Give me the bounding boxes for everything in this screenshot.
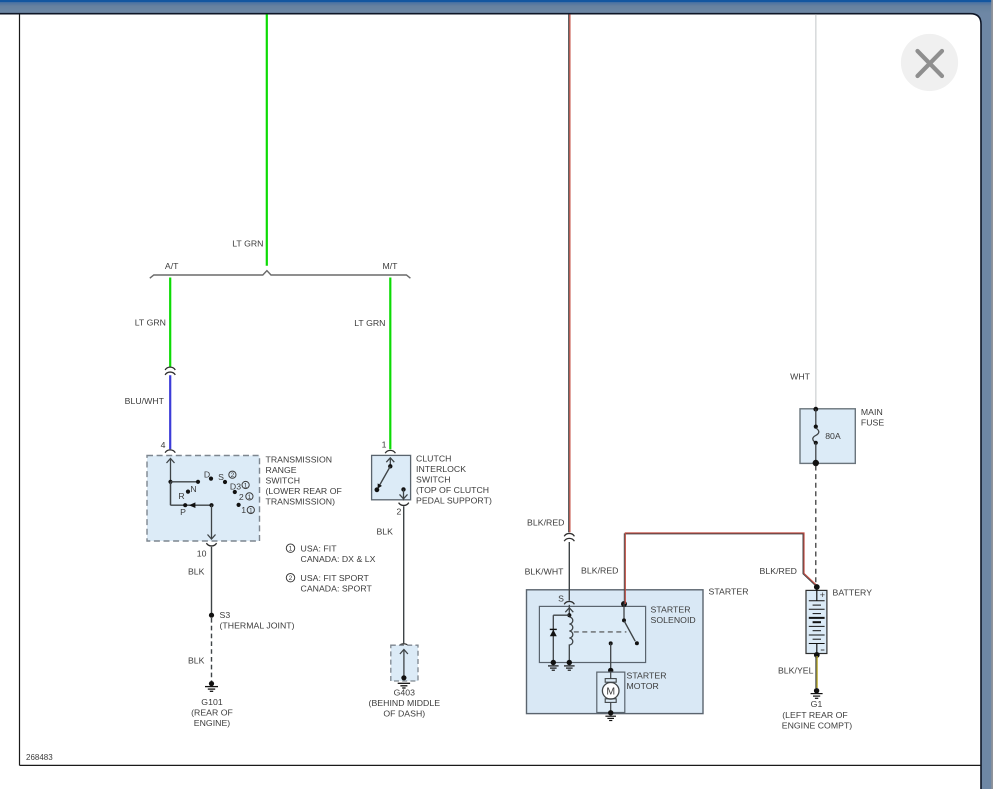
wire LT GRN M/T branch xyxy=(389,278,391,450)
fuse top terminal dot xyxy=(813,407,818,412)
motor ground xyxy=(608,710,613,715)
svg-text:2: 2 xyxy=(231,472,235,479)
svg-text:R: R xyxy=(178,491,184,501)
svg-text:2: 2 xyxy=(397,507,402,517)
wire BLK clutch to G403 xyxy=(403,506,405,643)
TRS junction dot xyxy=(168,480,172,484)
TRS bottom line with P contact and left arrow xyxy=(171,504,212,506)
contact S xyxy=(223,480,227,484)
connector arc at S xyxy=(564,601,574,604)
svg-text:SWITCH: SWITCH xyxy=(416,475,451,485)
footnote 1 xyxy=(286,544,294,552)
dashed wire fuse to battery xyxy=(815,466,817,584)
svg-text:M/T: M/T xyxy=(382,261,398,271)
battery internal stub top xyxy=(816,587,818,601)
top bar bright blue line xyxy=(0,0,993,2)
close button X xyxy=(918,51,943,76)
ground dot diode branch xyxy=(551,660,556,665)
wire WHT from top xyxy=(815,14,817,408)
svg-text:SWITCH: SWITCH xyxy=(266,476,301,486)
pivot dot xyxy=(388,464,392,468)
svg-text:A/T: A/T xyxy=(165,261,179,271)
svg-text:BLK/YEL: BLK/YEL xyxy=(778,666,814,676)
solenoid switch input dot on box top xyxy=(621,601,627,607)
wire LT GRN main vertical from top xyxy=(266,14,268,265)
top bar gradient band xyxy=(0,2,993,12)
contact 2 xyxy=(237,503,241,507)
svg-text:268483: 268483 xyxy=(26,753,53,762)
svg-text:INTERLOCK: INTERLOCK xyxy=(416,464,466,474)
wire BLK/RED from top (black + red pair) xyxy=(568,14,570,532)
wire BLK from TRS xyxy=(211,547,213,615)
motor symbol xyxy=(610,672,612,679)
wire LT GRN A/T branch xyxy=(169,278,171,368)
svg-text:ENGINE COMPT): ENGINE COMPT) xyxy=(782,720,853,730)
svg-text:RANGE: RANGE xyxy=(266,465,297,475)
svg-text:BATTERY: BATTERY xyxy=(833,588,873,598)
svg-text:1: 1 xyxy=(248,494,252,501)
footnote circle 2 xyxy=(229,471,236,478)
svg-text:S: S xyxy=(218,472,224,482)
svg-text:BLK/WHT: BLK/WHT xyxy=(525,567,565,577)
svg-text:BLK/RED: BLK/RED xyxy=(527,518,564,528)
blade end contact dot xyxy=(375,487,380,492)
connector arc at pin 1 xyxy=(385,450,395,453)
svg-text:S: S xyxy=(558,594,564,604)
svg-text:2: 2 xyxy=(289,575,293,582)
svg-text:S3: S3 xyxy=(220,610,231,620)
blade end dot xyxy=(635,641,639,645)
coil junction dot xyxy=(567,613,571,617)
svg-text:BLK/RED: BLK/RED xyxy=(581,566,618,576)
svg-text:TRANSMISSION): TRANSMISSION) xyxy=(266,497,336,507)
starter solenoid box xyxy=(539,606,645,662)
output contact dot xyxy=(609,641,613,645)
svg-text:1: 1 xyxy=(249,507,253,514)
clutch interlock switch box xyxy=(372,455,411,499)
svg-text:LT GRN: LT GRN xyxy=(135,318,166,328)
starter motor box xyxy=(597,672,625,712)
svg-text:G101: G101 xyxy=(201,697,223,707)
switch contact dot xyxy=(622,618,626,622)
svg-text:1: 1 xyxy=(289,546,293,553)
brace split A/T M/T xyxy=(150,271,411,279)
wire solenoid output to motor xyxy=(610,643,612,670)
splice connector arcs xyxy=(564,533,574,541)
splice S3 xyxy=(209,613,214,618)
svg-text:BLU/WHT: BLU/WHT xyxy=(125,396,165,406)
svg-text:LT GRN: LT GRN xyxy=(232,239,263,249)
connector arc at pin 2 xyxy=(399,503,409,506)
pivot dot xyxy=(209,503,213,507)
wire BLK dashed to ground xyxy=(211,618,213,683)
svg-text:D: D xyxy=(204,470,210,480)
pin 2 stem with down arrow xyxy=(403,489,405,500)
svg-text:(BEHIND MIDDLE: (BEHIND MIDDLE xyxy=(369,698,441,708)
svg-text:(THERMAL JOINT): (THERMAL JOINT) xyxy=(220,620,295,630)
wire to diode branch xyxy=(553,614,569,616)
wire BLK/RED solenoid to battery (black + red pair) xyxy=(624,534,816,604)
svg-text:N: N xyxy=(190,484,196,494)
switch blade xyxy=(380,466,391,485)
svg-text:10: 10 xyxy=(197,549,207,559)
svg-text:+: + xyxy=(820,590,825,600)
svg-text:CANADA: SPORT: CANADA: SPORT xyxy=(301,584,373,594)
ground G101 xyxy=(209,681,214,686)
diode xyxy=(550,630,557,637)
battery minus terminal dot xyxy=(814,652,820,658)
svg-text:(TOP OF CLUTCH: (TOP OF CLUTCH xyxy=(416,485,489,495)
svg-text:WHT: WHT xyxy=(790,372,811,382)
wire BLK/YEL (black + yellow pair) xyxy=(815,656,817,688)
svg-text:P: P xyxy=(180,507,186,517)
TRS exit wire with down arrow xyxy=(211,505,213,539)
svg-text:STARTER: STARTER xyxy=(627,671,667,681)
connector arc at pin 10 xyxy=(206,543,216,546)
clutch switch pivot stem with up arrow xyxy=(389,458,391,467)
G403 dashed box xyxy=(391,645,418,681)
wiper arrow pointing left xyxy=(189,502,196,508)
connector arc at pin 4 xyxy=(165,450,175,453)
svg-text:1: 1 xyxy=(241,505,246,515)
battery minus sign xyxy=(821,649,825,651)
contact R xyxy=(186,490,190,494)
pin 2 contact dot xyxy=(401,487,405,491)
svg-text:TRANSMISSION: TRANSMISSION xyxy=(266,455,333,465)
svg-text:BLK: BLK xyxy=(188,656,205,666)
svg-text:80A: 80A xyxy=(825,431,841,441)
svg-text:BLK: BLK xyxy=(376,527,393,537)
svg-text:1: 1 xyxy=(244,482,248,489)
connector arc at G403 xyxy=(399,644,409,647)
battery internal stub bottom xyxy=(816,644,818,655)
ground G403 xyxy=(401,675,406,680)
main fuse box xyxy=(800,409,855,464)
splice connector arcs green to blue xyxy=(165,367,175,375)
svg-text:CANADA: DX & LX: CANADA: DX & LX xyxy=(301,554,376,564)
solenoid coil xyxy=(569,617,573,663)
svg-text:G403: G403 xyxy=(394,688,416,698)
diagram frame left border xyxy=(19,14,21,766)
TRS wire to N contact xyxy=(171,481,199,483)
svg-text:CLUTCH: CLUTCH xyxy=(416,454,451,464)
svg-text:STARTER: STARTER xyxy=(651,605,691,615)
footnote circle 1 for D3 xyxy=(242,481,249,488)
contact D3 xyxy=(233,490,237,494)
fuse bottom terminal dot xyxy=(813,460,819,466)
svg-text:STARTER: STARTER xyxy=(709,587,749,597)
svg-text:(LOWER REAR OF: (LOWER REAR OF xyxy=(266,486,342,496)
wire BLK/WHT xyxy=(568,542,570,601)
svg-text:LT GRN: LT GRN xyxy=(354,318,385,328)
svg-text:MAIN: MAIN xyxy=(861,407,883,417)
battery plus terminal dot xyxy=(814,584,820,590)
fuse element xyxy=(814,425,818,429)
footnote circle 1 for 1 xyxy=(247,506,254,513)
svg-text:BLK/RED: BLK/RED xyxy=(760,566,797,576)
svg-text:(REAR OF: (REAR OF xyxy=(191,707,233,717)
svg-text:2: 2 xyxy=(239,492,244,502)
TRS entry wire with up arrow xyxy=(170,459,172,506)
svg-text:SOLENOID: SOLENOID xyxy=(651,615,696,625)
battery box xyxy=(806,590,827,653)
footnote circle 1 for 2 xyxy=(246,493,253,500)
ground dot coil branch xyxy=(567,660,572,665)
footnote 2 xyxy=(286,574,294,582)
contact P xyxy=(183,503,187,507)
svg-text:1: 1 xyxy=(382,440,387,450)
svg-text:M: M xyxy=(606,686,615,698)
solenoid S entry wire with up arrow xyxy=(568,605,570,615)
svg-text:MOTOR: MOTOR xyxy=(627,681,659,691)
svg-text:USA: FIT SPORT: USA: FIT SPORT xyxy=(301,573,370,583)
svg-text:D3: D3 xyxy=(230,482,241,492)
contact N xyxy=(196,480,200,484)
svg-text:USA: FIT: USA: FIT xyxy=(301,544,338,554)
svg-text:(LEFT REAR OF: (LEFT REAR OF xyxy=(782,710,848,720)
switch blade xyxy=(624,621,635,641)
diagram frame bottom border xyxy=(20,764,982,766)
motor terminal dot xyxy=(608,668,613,673)
svg-text:BLK: BLK xyxy=(188,567,205,577)
battery plates xyxy=(809,600,825,602)
starter outer box xyxy=(527,590,704,714)
svg-text:ENGINE): ENGINE) xyxy=(194,718,231,728)
G403 internal wire with up arrow xyxy=(403,650,405,678)
svg-text:4: 4 xyxy=(161,440,166,450)
svg-text:PEDAL SUPPORT): PEDAL SUPPORT) xyxy=(416,496,492,506)
close button circle xyxy=(901,34,958,91)
dashed mechanical linkage xyxy=(574,631,627,633)
svg-text:FUSE: FUSE xyxy=(861,418,884,428)
wire BLU/WHT xyxy=(169,375,171,449)
scrollbar strip right edge xyxy=(991,0,993,789)
transmission range switch box xyxy=(147,456,260,542)
contact D xyxy=(209,477,213,481)
ground G1 xyxy=(814,688,819,693)
svg-text:OF DASH): OF DASH) xyxy=(383,708,425,718)
svg-text:G1: G1 xyxy=(811,699,823,709)
